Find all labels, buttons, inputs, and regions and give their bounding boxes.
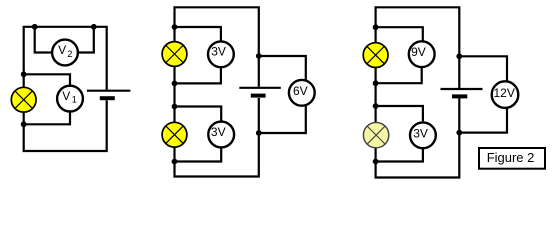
wire: bottom loop (lamp2 bottom, bottom wire, right vertical from battery) <box>175 98 259 177</box>
wire: meter M1 (3V) branch top <box>175 27 221 42</box>
wire: outer loop top (left vertical, top wire, right vertical to battery) <box>376 7 460 88</box>
node: dot below lamp L3b <box>373 159 379 165</box>
lamp L3a (circuit 3 top) <box>363 43 388 68</box>
wire: V1 branch top <box>24 74 70 86</box>
voltmeter V2 <box>52 40 78 66</box>
lamp L2b (circuit 2 bottom) <box>162 122 187 147</box>
battery B3 long plate (+) <box>441 88 483 90</box>
voltmeter M1 3V <box>208 41 234 67</box>
wire: outer loop top (left vertical, top wire, right vertical to battery) <box>24 27 107 90</box>
voltmeter 9V <box>409 41 435 67</box>
wire: 12V meter branch top <box>459 56 507 81</box>
battery B3 short plate (-) <box>452 94 467 98</box>
node: junction dot top-left (V2 tap) <box>32 24 38 30</box>
wire: meter 3V branch bottom (circuit 3) <box>376 149 423 162</box>
svg-text:V: V <box>58 43 66 57</box>
battery B2 long plate (+) <box>239 87 280 89</box>
node: dot below lamp L2a <box>172 81 178 87</box>
voltmeter 6V <box>289 80 315 106</box>
voltmeter V1 <box>57 86 83 112</box>
wire: V2 branch left riser <box>35 27 53 53</box>
svg-text:12V: 12V <box>494 86 515 100</box>
node: dot above lamp L2b <box>172 104 178 110</box>
Figure 2 label box <box>479 148 545 169</box>
node: junction dot below lamp L1 <box>21 121 27 127</box>
wire: 12V meter branch bottom <box>459 108 507 133</box>
node: dot above lamp L3b <box>373 103 379 109</box>
wire: meter M2 (3V) branch bottom <box>175 147 222 161</box>
node: dot right vertical top (12V tap) <box>456 53 462 59</box>
wire: meter 9V branch bottom <box>376 67 422 83</box>
svg-text:3V: 3V <box>211 45 226 59</box>
wire: V1 branch bottom <box>24 111 70 124</box>
node: junction dot above lamp L1 <box>21 71 27 77</box>
wire: left vertical between lamps <box>173 67 175 123</box>
voltmeter 3V (circuit 3) <box>410 122 436 148</box>
svg-text:Figure 2: Figure 2 <box>487 150 535 165</box>
svg-text:2: 2 <box>67 49 72 59</box>
node: dot below lamp L3a <box>373 80 379 86</box>
battery B2 short plate (-) <box>251 94 266 98</box>
wire: outer loop bottom (battery to bottom wire to lamp bottom) <box>24 100 107 151</box>
node: dot right vertical bottom (12V tap) <box>456 130 462 136</box>
svg-text:9V: 9V <box>411 45 426 59</box>
wire: left vertical between lamps <box>375 68 377 123</box>
wire: 6V meter branch bottom <box>259 105 306 133</box>
wire: V2 branch right riser <box>78 27 94 53</box>
battery B1 long plate (+) <box>87 90 130 92</box>
node: dot right vertical bottom (6V tap) <box>256 130 262 136</box>
node: dot below lamp L2b <box>172 159 178 165</box>
node: dot right vertical top (6V tap) <box>256 53 262 59</box>
node: dot above lamp L2a <box>172 24 178 30</box>
wire: meter 3V branch top (circuit 3) <box>376 106 423 121</box>
svg-text:6V: 6V <box>293 84 308 98</box>
svg-text:3V: 3V <box>211 125 226 139</box>
wire: meter 9V branch top <box>376 27 423 41</box>
voltmeter M2 3V <box>208 122 234 148</box>
battery B1 short plate (-) <box>100 96 115 100</box>
wire: meter M2 (3V) branch top <box>175 107 222 122</box>
node: junction dot top-right (V2 tap) <box>91 24 97 30</box>
wire: outer loop top (left vertical, top wire, right vertical to battery) <box>175 7 259 87</box>
svg-text:3V: 3V <box>413 126 428 140</box>
lamp L2a (circuit 2 top) <box>162 42 187 67</box>
svg-text:1: 1 <box>72 95 77 105</box>
wire: meter M1 (3V) branch bottom <box>175 67 221 83</box>
wire: 6V meter branch top <box>259 56 306 81</box>
node: dot above lamp L3a <box>373 24 379 30</box>
voltmeter 12V <box>492 81 519 108</box>
svg-text:V: V <box>62 89 70 103</box>
wire: bottom loop (lamp2 bottom, bottom wire, right vertical from battery) <box>376 98 460 177</box>
lamp L3b dim (circuit 3 bottom, pale) <box>363 122 388 147</box>
lamp L1 (circuit 1) <box>11 87 36 112</box>
